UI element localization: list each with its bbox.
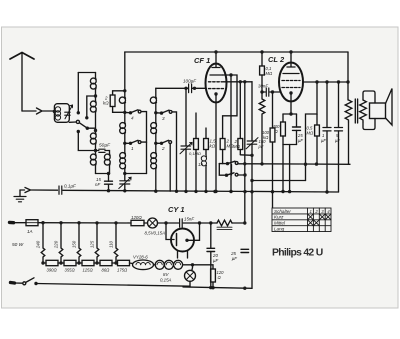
wire to R 2k xyxy=(113,91,125,95)
coil choke x206 xyxy=(201,156,206,161)
resistor 0.1M xyxy=(260,50,263,53)
resistor 120 vertical xyxy=(211,269,216,282)
coil L2a chain1 xyxy=(95,73,97,79)
svg-text:µF: µF xyxy=(335,138,340,143)
svg-text:50 W: 50 W xyxy=(12,242,24,248)
svg-text:µF: µF xyxy=(298,138,303,143)
coil L2d chain1 xyxy=(90,154,96,165)
resistor 125 xyxy=(82,260,94,265)
resistor 355 xyxy=(64,260,76,265)
screen wire CF1 xyxy=(224,81,252,83)
wire lineB xyxy=(240,154,252,157)
capacitor 15nF CY1 xyxy=(166,222,179,224)
svg-text:CY 1: CY 1 xyxy=(168,205,185,214)
chain3 top corner xyxy=(155,88,157,97)
svg-text:Schalter: Schalter xyxy=(274,209,291,214)
svg-text:100µF: 100µF xyxy=(183,79,197,84)
top B+ rail xyxy=(125,51,348,53)
svg-text:1A: 1A xyxy=(198,162,203,167)
svg-text:8,5V0,15A: 8,5V0,15A xyxy=(145,231,166,236)
svg-text:240: 240 xyxy=(36,240,41,249)
trimmer capacitor x185 xyxy=(185,88,187,146)
wire heater to R120 xyxy=(193,265,214,269)
svg-text:pF: pF xyxy=(258,144,264,149)
heater loop b xyxy=(164,260,173,269)
screen wire CL2 xyxy=(303,81,348,83)
resistor 0.5M xyxy=(316,114,318,125)
wire line180 xyxy=(252,180,306,182)
switch 2 xyxy=(156,142,162,144)
trimmer capacitor chain2 xyxy=(120,181,130,184)
coil L1 antenna coupling xyxy=(54,104,69,123)
svg-text:125: 125 xyxy=(90,240,95,248)
svg-text:86Ω: 86Ω xyxy=(102,268,111,273)
coil L2b chain1 xyxy=(90,101,96,112)
chain2 drop xyxy=(124,52,126,97)
switch assembly netz xyxy=(219,163,227,165)
coil chain2 mid xyxy=(120,123,126,134)
heater loop c xyxy=(174,260,183,269)
coil chain3 mid xyxy=(151,123,157,134)
heater loop a xyxy=(155,260,164,269)
table Schalter xyxy=(272,208,331,232)
svg-text:0,1MΩ: 0,1MΩ xyxy=(189,151,201,156)
svg-text:µF: µF xyxy=(213,258,219,263)
svg-text:4: 4 xyxy=(131,116,134,121)
capacitor 20uF xyxy=(210,223,212,248)
switch 4 xyxy=(125,111,131,113)
svg-text:390Ω: 390Ω xyxy=(47,268,58,273)
resistor R 2k xyxy=(110,95,115,107)
dropper R 240 xyxy=(41,223,45,263)
resistor zigzag x261 xyxy=(259,92,265,164)
svg-text:CF 1: CF 1 xyxy=(194,56,210,65)
switch S-ant pivot xyxy=(76,120,79,123)
resistor box x222.6 xyxy=(220,139,225,150)
svg-text:110: 110 xyxy=(109,240,114,248)
svg-text:Lang: Lang xyxy=(274,227,285,232)
coil chain2 top loop xyxy=(119,97,125,103)
svg-text:MΩ: MΩ xyxy=(233,144,241,149)
svg-text:Philips 42 U: Philips 42 U xyxy=(272,247,323,258)
svg-text:kΩ: kΩ xyxy=(103,101,109,106)
wire x271.5 xyxy=(272,92,274,128)
wire x244.8 xyxy=(244,82,246,223)
arrow plug symbol xyxy=(37,108,43,114)
resistor 390 xyxy=(46,260,58,265)
resistor 86 xyxy=(100,260,112,265)
svg-text:125Ω: 125Ω xyxy=(83,268,94,273)
speaker xyxy=(363,91,375,103)
svg-text:175Ω: 175Ω xyxy=(117,268,128,273)
trimmer capacitor antenna xyxy=(65,112,71,115)
heater legs CY1 xyxy=(177,251,179,258)
barretter bottom line xyxy=(43,262,118,264)
wire coil bottom to switch pivot xyxy=(69,121,76,123)
chassis rail xyxy=(63,190,339,192)
resistor box x240 xyxy=(239,82,241,139)
coil L2e chain1 xyxy=(104,154,110,165)
svg-text:µF: µF xyxy=(321,138,326,143)
wire x317 xyxy=(306,82,318,181)
svg-text:1: 1 xyxy=(131,146,134,151)
svg-text:220: 220 xyxy=(54,240,59,249)
svg-text:1A: 1A xyxy=(27,229,33,234)
contact B xyxy=(85,116,88,119)
capacitor x338.5 xyxy=(338,82,340,128)
resistor 400ohm xyxy=(281,122,286,136)
svg-text:Kurz: Kurz xyxy=(274,215,284,220)
coil chain3 loop xyxy=(150,97,156,103)
dropper R 110 xyxy=(114,223,118,263)
svg-text:µF: µF xyxy=(232,256,238,261)
contact A upper xyxy=(77,111,80,114)
power rail fuse xyxy=(10,221,14,225)
wire top link to chain1 xyxy=(78,72,95,74)
resistor 100k xyxy=(270,128,275,142)
coil L2c chain1 xyxy=(90,133,96,144)
resistor box x206 1.5k xyxy=(205,128,207,139)
capacitor 25uF cathode xyxy=(296,114,298,127)
tube CY1 xyxy=(171,229,194,252)
bottom B- line xyxy=(183,287,252,288)
wire antenna to coil xyxy=(22,110,36,112)
svg-text:355Ω: 355Ω xyxy=(65,268,76,273)
choke filter xyxy=(217,220,232,226)
fuse 1A xyxy=(26,220,38,226)
svg-text:150: 150 xyxy=(72,240,77,248)
resistor box x196 xyxy=(195,113,197,139)
dropper R 125 xyxy=(95,223,99,263)
cathode network CL2 xyxy=(290,102,292,115)
anode wire CF1 xyxy=(223,75,238,139)
wire chain1 bottom xyxy=(96,173,110,175)
svg-text:MΩ: MΩ xyxy=(307,131,314,136)
grid line to CF1 xyxy=(156,87,186,89)
svg-text:kΩ: kΩ xyxy=(263,135,269,140)
svg-text:CL 2: CL 2 xyxy=(268,55,285,64)
svg-text:15nF: 15nF xyxy=(184,217,194,222)
dropper R 150 xyxy=(77,223,81,263)
svg-text:nF: nF xyxy=(95,182,100,187)
antenna xyxy=(10,53,34,60)
wire x231 anode drop xyxy=(230,75,232,192)
svg-text:MΩ: MΩ xyxy=(266,71,273,76)
resistor 175 xyxy=(118,260,130,265)
lamp 8.5V xyxy=(148,218,158,228)
capacitor x327 xyxy=(326,82,328,128)
switch 3 xyxy=(156,112,162,114)
coil chain2 bottom xyxy=(120,153,126,169)
cathode lead CF1 xyxy=(215,103,217,192)
svg-text:3: 3 xyxy=(162,116,165,121)
svg-text:Mittel: Mittel xyxy=(274,221,286,226)
ground symbol mains xyxy=(19,190,21,196)
svg-text:0,15A: 0,15A xyxy=(160,278,172,283)
wire lineC xyxy=(238,174,245,176)
switch 1 xyxy=(125,142,131,144)
wire lineA xyxy=(238,163,350,166)
dropper R 220 xyxy=(59,223,63,263)
contact C lower branch to 50uF tap xyxy=(77,130,80,133)
svg-text:120Ω: 120Ω xyxy=(131,215,142,220)
mains bottom switch line xyxy=(11,281,15,285)
coil chain3 bottom xyxy=(151,153,157,169)
trimmer x252.8 xyxy=(251,82,253,141)
svg-text:VY28-6: VY28-6 xyxy=(133,255,148,260)
svg-text:2: 2 xyxy=(161,146,165,151)
capacitor 25uF main xyxy=(241,249,249,252)
output transformer xyxy=(347,52,349,100)
svg-text:50µF: 50µF xyxy=(99,143,111,149)
svg-text:kΩ: kΩ xyxy=(210,144,216,149)
svg-text:0,1µF: 0,1µF xyxy=(64,184,77,189)
lamp 8V xyxy=(191,265,194,271)
